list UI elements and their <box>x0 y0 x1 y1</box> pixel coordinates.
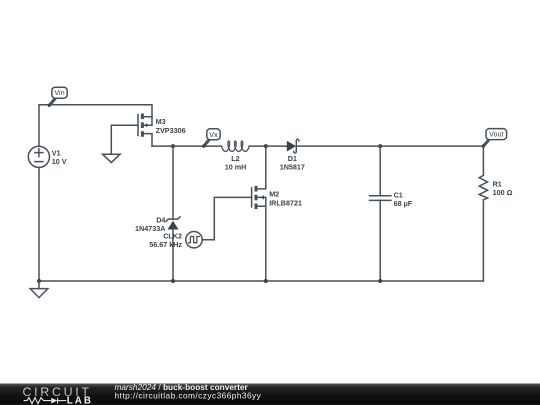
clock source CLK2 <box>186 232 202 248</box>
node junction M2 source bottom <box>264 279 268 283</box>
footer bar <box>0 384 540 405</box>
resistor R1 <box>479 146 487 281</box>
capacitor C1 <box>370 146 391 281</box>
svg-text:10 mH: 10 mH <box>225 163 247 172</box>
wire zener branch upper <box>172 146 174 219</box>
diode D4 zener 1N4733A <box>166 216 181 229</box>
transistor M2 NMOS <box>252 146 266 281</box>
svg-text:10 V: 10 V <box>52 157 67 166</box>
label CLK2 56.67 kHz <box>149 232 182 250</box>
wire CLK2 to M2 gate <box>202 197 251 239</box>
wire Vx rail <box>152 145 222 147</box>
node junction L2-M2 <box>264 144 268 148</box>
node junction ground-bottom-left <box>37 279 41 283</box>
node junction C1 top <box>378 144 382 148</box>
wire left vertical <box>38 167 40 281</box>
svg-text:100 Ω: 100 Ω <box>493 188 513 197</box>
node junction Vx-zener <box>171 144 175 148</box>
wire L2 to D1 <box>249 145 287 147</box>
logo resistor-diode glyph <box>24 398 67 404</box>
node Vx flag <box>202 129 220 148</box>
label D1 1N5817 <box>280 154 305 172</box>
label M3 ZVP3306 <box>156 117 186 135</box>
svg-text:ZVP3306: ZVP3306 <box>156 126 186 135</box>
inductor L2 <box>222 141 249 151</box>
diode D1 1N5817 schottky <box>287 139 299 153</box>
transistor M3 PMOS <box>138 114 152 147</box>
svg-text:1N5817: 1N5817 <box>280 163 305 172</box>
ground M3 gate <box>103 154 121 162</box>
svg-text:M3: M3 <box>156 117 166 126</box>
svg-text:56.67 kHz: 56.67 kHz <box>149 240 182 249</box>
label L2 10 mH <box>225 154 247 172</box>
wire M3 gate <box>111 125 138 154</box>
ground bottom left <box>30 281 48 298</box>
svg-text:Vx: Vx <box>209 130 218 139</box>
label C1 68 uF <box>394 191 413 208</box>
svg-text:IRLB8721: IRLB8721 <box>269 198 302 207</box>
label M2 IRLB8721 <box>269 190 302 208</box>
node Vout flag <box>482 129 507 148</box>
node Vin flag <box>48 87 68 107</box>
wire zener branch lower <box>172 230 174 282</box>
svg-text:Vin: Vin <box>54 88 64 97</box>
label V1 10 V <box>52 149 67 167</box>
node junction C1 bottom <box>378 279 382 283</box>
wire top rail Vin <box>39 105 152 146</box>
wire D1 to Vout <box>297 145 483 147</box>
svg-text:http://circuitlab.com/czyc366p: http://circuitlab.com/czyc366ph36yy <box>115 391 262 401</box>
voltage source V1 <box>28 146 49 167</box>
svg-text:M2: M2 <box>269 190 279 199</box>
wire bottom rail <box>39 280 483 282</box>
node junction zener-bottom <box>171 279 175 283</box>
svg-text:LAB: LAB <box>67 395 93 405</box>
svg-text:68 µF: 68 µF <box>394 199 413 208</box>
svg-text:Vout: Vout <box>489 130 503 139</box>
svg-text:1N4733A: 1N4733A <box>135 224 165 233</box>
label D4 1N4733A <box>135 216 165 234</box>
label R1 100 Ohm <box>493 179 513 197</box>
